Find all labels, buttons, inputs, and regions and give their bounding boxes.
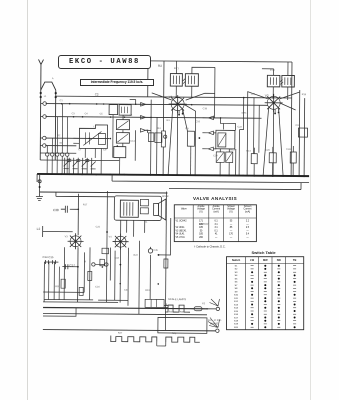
cluster stubs (73, 138, 101, 174)
resistor R20 box (102, 248, 109, 254)
svg-text:L1: L1 (44, 95, 47, 98)
svg-text:(mA): (mA) (245, 210, 250, 213)
detector network box C23 (216, 130, 235, 149)
svg-text:S17: S17 (234, 317, 239, 319)
svg-text:171: 171 (199, 221, 204, 223)
svg-text:S3: S3 (235, 272, 238, 274)
svg-text:(oscillator): (oscillator) (199, 223, 209, 226)
svg-text:R: R (84, 260, 86, 263)
svg-text:55: 55 (230, 221, 233, 223)
svg-text:S12: S12 (234, 301, 239, 303)
wires fanning from V1 (151, 93, 215, 175)
valve V2 cathode legs (275, 108, 279, 113)
svg-text:S2: S2 (235, 269, 238, 271)
small box S8 (155, 133, 162, 143)
svg-text:S14: S14 (234, 308, 239, 310)
svg-text:S13: S13 (234, 304, 239, 306)
svg-text:S5: S5 (235, 278, 238, 280)
switch row feeders (47, 104, 68, 174)
svg-text:R2: R2 (158, 64, 162, 68)
svg-text:—: — (246, 237, 249, 239)
svg-text:C1: C1 (60, 99, 64, 102)
svg-text:L4: L4 (93, 125, 96, 128)
svg-text:FS: FS (202, 302, 205, 305)
svg-text:IFT2: IFT2 (270, 69, 276, 72)
resistor R8 (187, 131, 194, 146)
junction dots on signal wires (59, 95, 274, 285)
svg-text:R30: R30 (55, 285, 60, 288)
wave switch arrows right bank (140, 102, 151, 132)
svg-text:R26: R26 (172, 332, 177, 335)
svg-text:A.C. or D.C.: A.C. or D.C. (208, 318, 222, 322)
svg-text:V3 UBC41: V3 UBC41 (176, 230, 188, 232)
resistor R19 (79, 287, 83, 295)
tuning capacitor comb (65, 158, 92, 174)
frame aerial L1 (40, 82, 56, 160)
svg-text:S10: S10 (234, 295, 239, 297)
resistor R28 (61, 279, 65, 288)
svg-text:R14: R14 (246, 150, 251, 153)
wire AVC top (56, 96, 292, 98)
svg-text:R17: R17 (83, 203, 88, 206)
svg-text:R24: R24 (169, 311, 174, 314)
svg-text:C24: C24 (213, 154, 218, 157)
svg-text:S1: S1 (235, 266, 238, 268)
wires around detector (213, 97, 244, 175)
svg-text:V1 UCH42: V1 UCH42 (176, 221, 188, 223)
trimmer box C13 (116, 133, 129, 144)
svg-text:185: 185 (199, 227, 204, 229)
wire grid (46, 104, 268, 106)
svg-text:2.2: 2.2 (246, 221, 250, 223)
capacitors C14 C15 (45, 260, 55, 264)
svg-text:C14 C15: C14 C15 (42, 255, 54, 259)
capacitor C32 box (100, 259, 105, 266)
svg-text:C36: C36 (124, 289, 129, 292)
wire L2 to V3 grid (43, 226, 73, 237)
wave switch circle row (46, 153, 69, 157)
svg-text:C4: C4 (85, 112, 89, 115)
svg-text:V4: V4 (109, 236, 113, 239)
svg-text:(mA): (mA) (214, 210, 219, 213)
ground symbol (36, 174, 43, 201)
output transformer T1 box (120, 200, 138, 217)
IF switch arrows (202, 116, 213, 151)
capacitor C17 (65, 264, 68, 269)
svg-text:—: — (246, 230, 249, 232)
svg-text:5.4: 5.4 (246, 234, 250, 236)
svg-text:200: 200 (199, 237, 204, 239)
coil box column L6 (109, 105, 118, 115)
svg-text:S7: S7 (235, 285, 238, 287)
svg-text:C38: C38 (53, 208, 59, 212)
mains terminal top (206, 307, 220, 311)
svg-text:R13: R13 (230, 148, 235, 151)
resistor R18 (88, 271, 92, 280)
svg-text:SPKR: SPKR (162, 195, 169, 198)
svg-text:V2: V2 (265, 94, 269, 98)
svg-text:† Cathode to Chassis, D.C.: † Cathode to Chassis, D.C. (194, 245, 226, 249)
svg-text:R25: R25 (180, 311, 185, 314)
svg-text:R4: R4 (157, 127, 161, 130)
svg-text:R22: R22 (133, 254, 138, 257)
valve V1 cathode legs (179, 109, 183, 114)
switch table (227, 257, 304, 330)
svg-text:S18: S18 (234, 321, 239, 323)
trimmer C9 arrow (83, 131, 101, 145)
svg-text:(V): (V) (199, 210, 202, 213)
short wire step (43, 308, 76, 317)
svg-text:(V): (V) (229, 210, 232, 213)
svg-text:C17: C17 (69, 263, 75, 267)
svg-text:SCALE LAMPS: SCALE LAMPS (168, 297, 186, 301)
svg-text:Switch: Switch (232, 258, 241, 262)
heater chain resistor R26 (111, 336, 200, 343)
svg-text:185: 185 (199, 234, 204, 236)
svg-text:V5 UY41: V5 UY41 (176, 237, 186, 239)
svg-text:S20: S20 (234, 327, 239, 329)
bottom bus 2 (43, 314, 207, 315)
title box EKCO UAW88 (58, 55, 151, 69)
capacitor C19 box (298, 128, 307, 137)
svg-text:S4: S4 (235, 275, 238, 277)
IF transformer IFT1 secondary (185, 74, 198, 87)
valve V1 frequency changer (169, 95, 187, 113)
mains connector arrows bottom (208, 318, 220, 328)
HT rail (chassis bus) (37, 174, 309, 176)
valve analysis table (174, 205, 256, 242)
svg-text:V3: V3 (65, 235, 69, 238)
trimmer capacitor arrows (64, 161, 96, 169)
svg-text:V1: V1 (169, 95, 173, 99)
svg-text:LW: LW (250, 258, 254, 262)
svg-text:MR1: MR1 (242, 112, 248, 115)
svg-text:C34: C34 (95, 285, 100, 288)
IFT1 stubs (176, 61, 215, 118)
svg-text:L8: L8 (130, 114, 133, 117)
svg-text:85: 85 (230, 227, 233, 229)
valve V4 output (113, 234, 129, 250)
svg-text:S2: S2 (57, 134, 61, 137)
bottom bus 3 (43, 330, 215, 331)
svg-text:C35: C35 (153, 249, 158, 252)
junction dot (198, 137, 200, 139)
wire osc (45, 137, 109, 140)
coil box column L7 (119, 105, 131, 116)
svg-text:R23: R23 (145, 289, 150, 292)
IFT2 core arrows (280, 79, 283, 84)
svg-text:R16: R16 (302, 93, 307, 96)
svg-text:50: 50 (200, 230, 203, 232)
IFT2 stubs (262, 62, 288, 100)
bottom bus 1 (43, 308, 208, 309)
audio wires (44, 191, 171, 331)
small box S7 (148, 133, 154, 142)
svg-text:C26: C26 (265, 149, 270, 152)
svg-text:41: 41 (215, 234, 218, 236)
svg-text:3.1: 3.1 (214, 227, 218, 229)
svg-text:V2 UF41: V2 UF41 (176, 227, 186, 229)
bottom loop wire (158, 317, 207, 333)
svg-text:C22: C22 (237, 126, 242, 129)
loudspeaker (154, 199, 166, 220)
small cap box inside (98, 133, 105, 144)
valve V2 IF amplifier (265, 94, 283, 112)
capacitor C39 R23 box (145, 299, 164, 307)
page left margin edge (27, 0, 28, 400)
svg-text:R3: R3 (167, 119, 171, 122)
svg-text:IFT1: IFT1 (174, 67, 180, 70)
IFT1 core arrows (183, 79, 186, 84)
svg-text:C25: C25 (251, 93, 256, 96)
svg-text:L2: L2 (37, 227, 41, 231)
svg-text:6.1: 6.1 (214, 221, 218, 223)
svg-text:C16: C16 (196, 120, 201, 123)
switch S1 contacts (40, 102, 46, 148)
svg-text:T1: T1 (145, 221, 148, 224)
junction dots audio (77, 231, 160, 268)
svg-text:C9: C9 (103, 148, 107, 151)
svg-text:Valve: Valve (181, 208, 187, 211)
boxes C24 R13 (216, 152, 224, 163)
rectifier marks (164, 303, 168, 307)
secondary rail (112, 175, 309, 183)
resistor R2 box (161, 131, 165, 147)
page right edge (310, 0, 311, 400)
svg-text:—: — (230, 237, 233, 239)
electrolytic C20 (148, 247, 152, 253)
svg-text:C7: C7 (78, 148, 82, 151)
svg-text:S16: S16 (234, 314, 239, 316)
svg-text:R5: R5 (185, 127, 189, 130)
output assembly outer box (114, 196, 161, 221)
svg-text:S11: S11 (234, 298, 239, 300)
vertical main x79.5 (77, 194, 80, 302)
svg-text:Switch Table: Switch Table (252, 250, 277, 255)
junction dots on rail (60, 173, 300, 177)
wire top bend (130, 99, 136, 104)
lower right return line (169, 182, 301, 190)
oscillator coil cluster C9 outline (79, 125, 107, 149)
thermistor link (157, 342, 166, 346)
svg-text:C3: C3 (72, 112, 76, 115)
column connecting stubs (113, 104, 124, 174)
svg-text:R27: R27 (118, 332, 123, 335)
cluster verticals (135, 99, 157, 174)
wire osc2 (45, 145, 76, 147)
svg-text:SW: SW (277, 258, 282, 262)
svg-text:S15: S15 (234, 311, 239, 313)
valve V3 AF amplifier (68, 233, 84, 249)
svg-text:C18: C18 (203, 107, 208, 110)
subtitle box intermediate frequency (80, 79, 154, 87)
trimmer box C11 (116, 120, 129, 130)
rail stub left (36, 174, 38, 182)
svg-text:S8: S8 (235, 288, 238, 290)
mains terminal bottom (216, 329, 219, 332)
svg-text:C13: C13 (130, 140, 135, 143)
resistor R21 (164, 259, 168, 268)
extra audio verticals (43, 262, 84, 300)
svg-text:3.1: 3.1 (214, 224, 218, 226)
extra IF verticals (223, 97, 259, 153)
svg-text:C5: C5 (100, 112, 104, 115)
svg-text:C28: C28 (286, 148, 291, 151)
IF transformer IFT2 secondary (282, 75, 295, 87)
svg-text:2.5: 2.5 (246, 227, 250, 229)
wires fanning from V2 (247, 92, 300, 176)
mains connector arrows top (210, 299, 220, 306)
humbucking coil boxes (140, 199, 148, 206)
wire lower left links (40, 153, 119, 161)
fuse FS1 (190, 307, 206, 311)
inner winding marks (85, 132, 89, 144)
wire into output box (56, 192, 115, 197)
junction dots aerial (40, 92, 57, 98)
vertical R2 x164 (162, 61, 165, 175)
wire pre-bus (43, 301, 118, 304)
svg-text:C31: C31 (96, 225, 101, 228)
svg-text:S6: S6 (235, 282, 238, 284)
ground dot (39, 186, 41, 188)
vertical HT feed x148 (146, 61, 149, 133)
wire signal (46, 117, 262, 119)
svg-text:VALVE ANALYSIS: VALVE ANALYSIS (193, 196, 237, 201)
lower rail (40, 192, 168, 193)
svg-text:C2: C2 (95, 92, 99, 96)
svg-text:TB: TB (293, 258, 297, 262)
aerial terminal (38, 59, 43, 90)
capacitor C38 (61, 206, 79, 213)
svg-text:S9: S9 (235, 291, 238, 293)
svg-text:—: — (246, 224, 249, 226)
switch circle (164, 135, 167, 138)
svg-text:MW: MW (263, 258, 268, 262)
svg-text:—: — (230, 224, 233, 226)
svg-text:V4 UL41: V4 UL41 (176, 234, 186, 236)
padder capacitor marks (67, 159, 89, 161)
svg-text:A: A (52, 77, 54, 80)
svg-text:C33: C33 (114, 257, 119, 260)
svg-text:S19: S19 (234, 324, 239, 326)
svg-text:0.1: 0.1 (214, 230, 218, 232)
scale lamps R24 R25 (165, 305, 190, 312)
switch contacts S9 S10 (92, 263, 108, 267)
svg-text:—: — (215, 237, 218, 239)
IF transformer IFT2 primary (267, 75, 280, 87)
svg-text:170: 170 (229, 234, 234, 236)
svg-text:C19: C19 (295, 124, 300, 127)
grid components row above rail (251, 146, 296, 177)
svg-text:—: — (230, 230, 233, 232)
switch unit box S6 (114, 147, 126, 158)
top HT wire (148, 61, 292, 62)
right HT verticals (291, 62, 305, 177)
IF transformer IFT1 primary (170, 74, 182, 87)
